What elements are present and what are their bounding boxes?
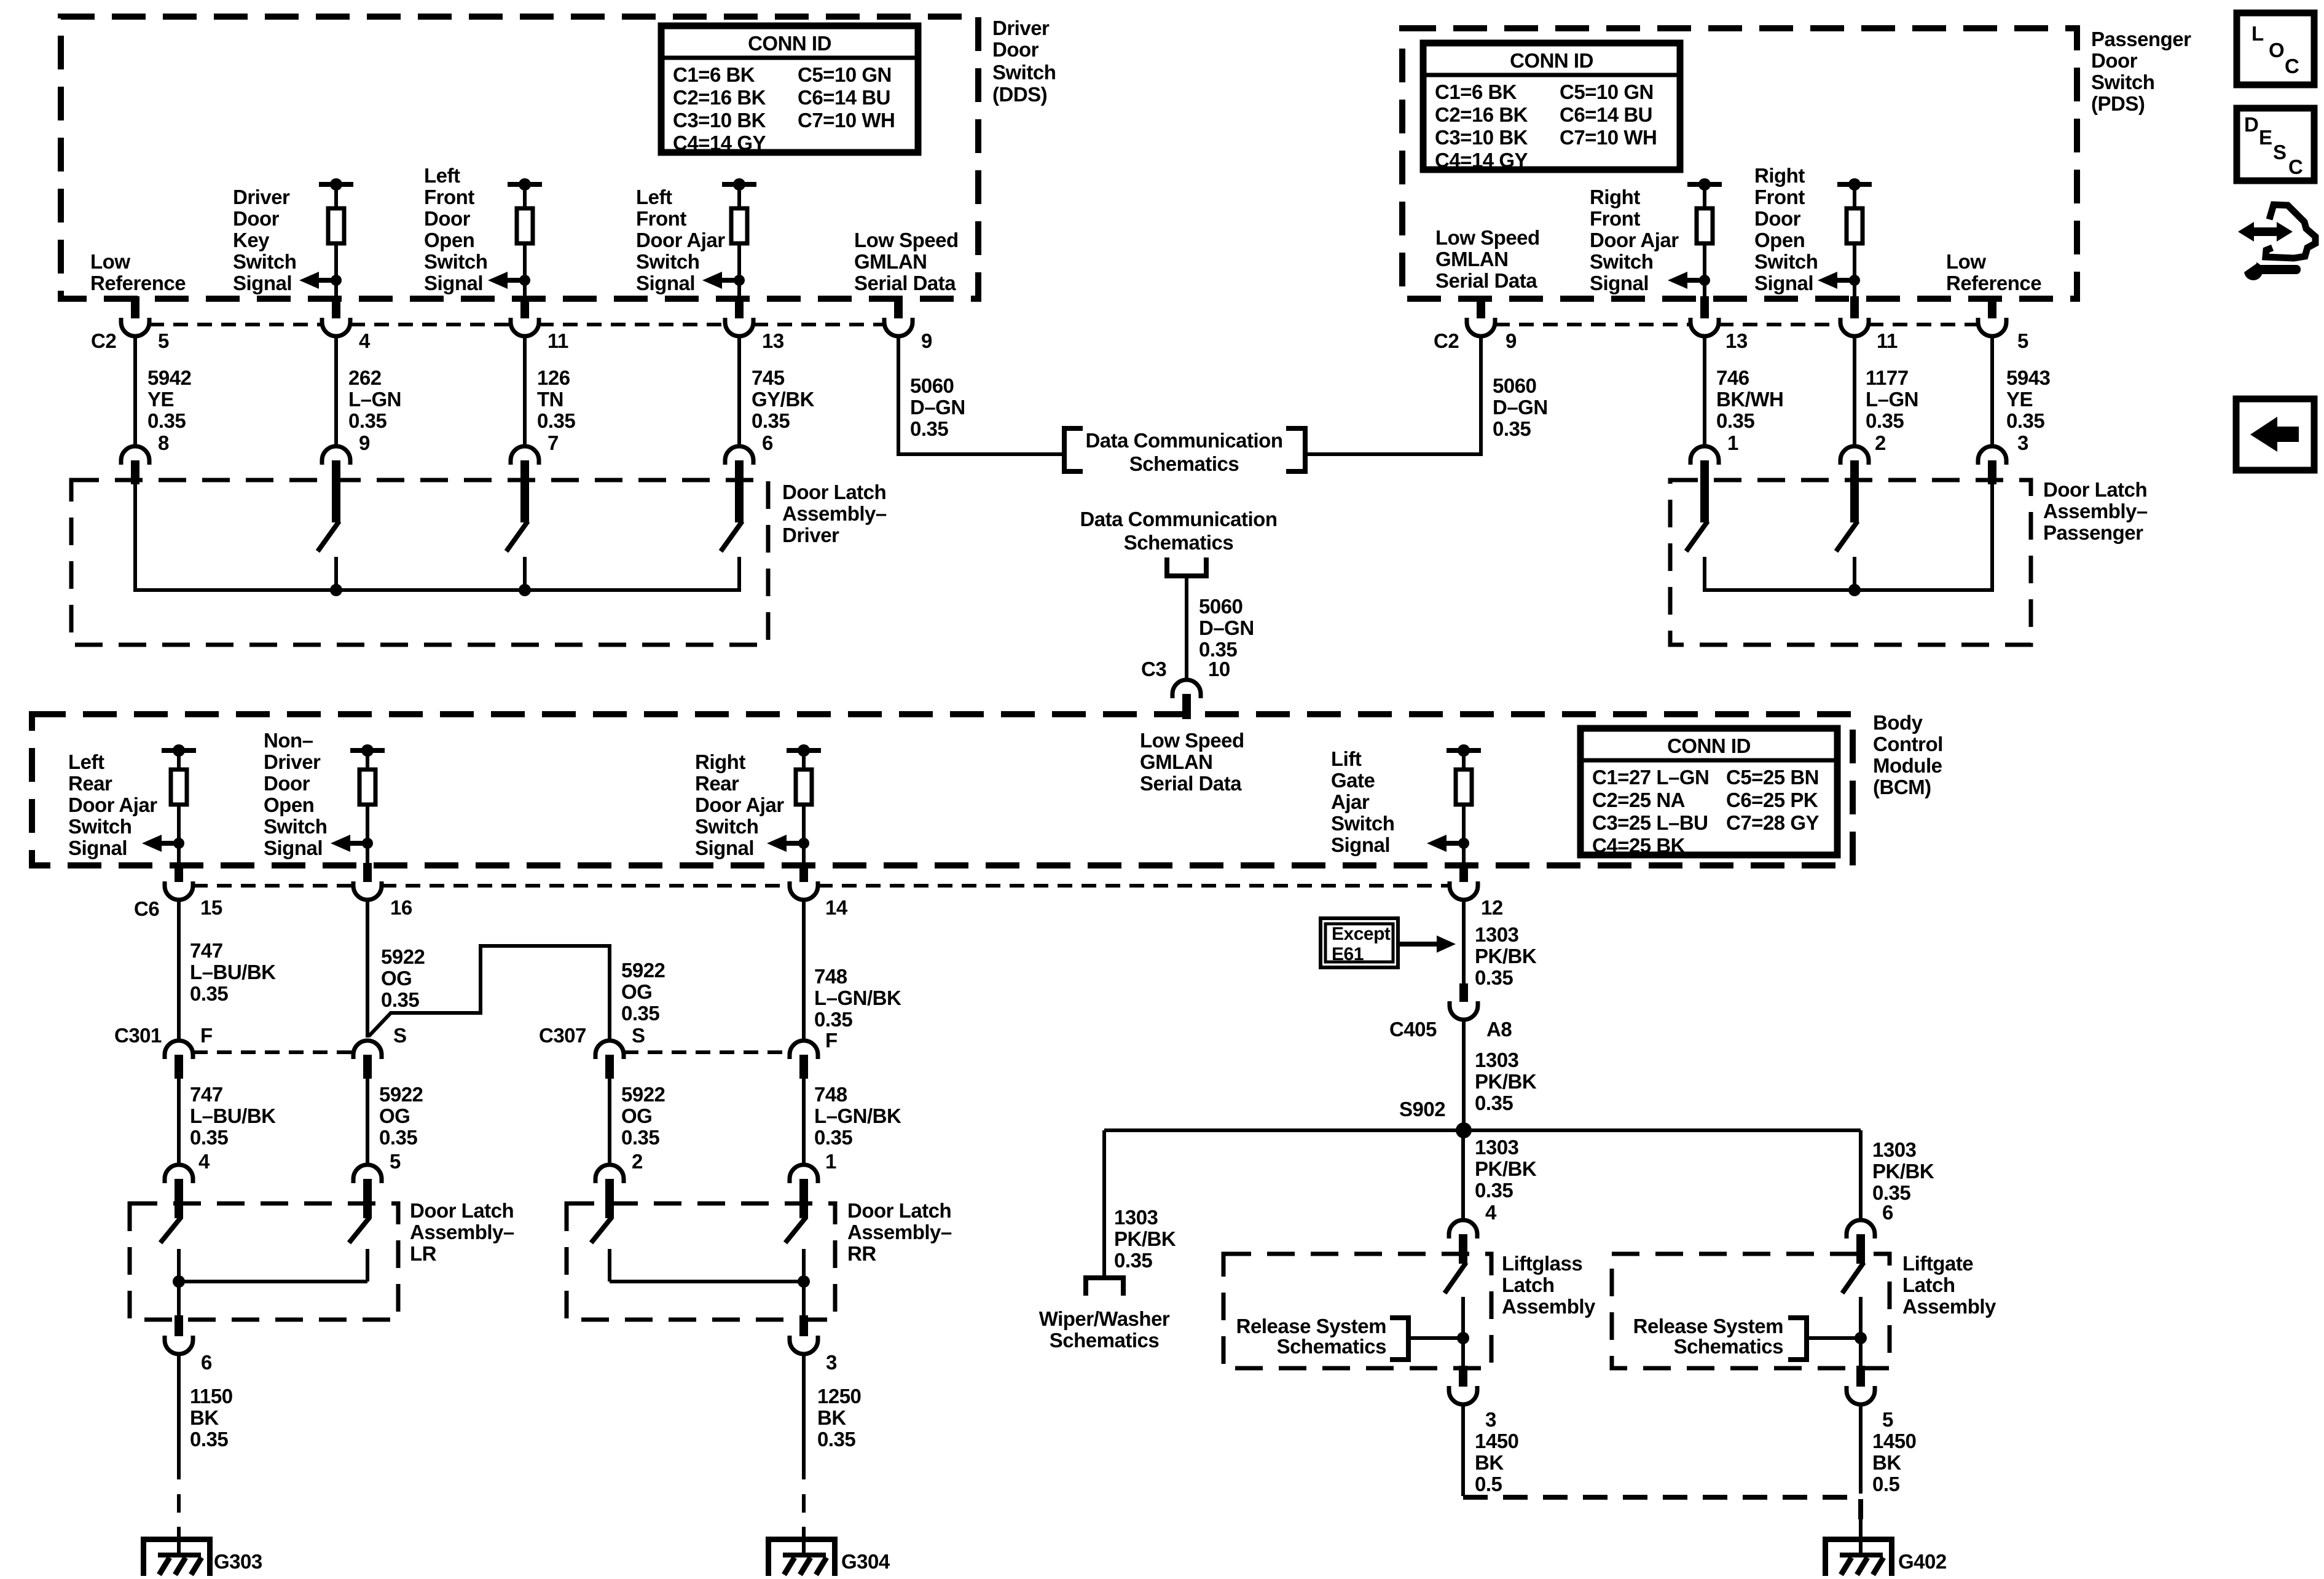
ground wire hidden (x=291) <box>177 1461 181 1527</box>
svg-text:1303: 1303 <box>1475 1136 1519 1159</box>
wire 748 to rear latch (x=1308) <box>802 1079 806 1165</box>
wire 5922 to rear latch (x=598) <box>366 1079 369 1165</box>
svg-text:RR: RR <box>847 1242 876 1265</box>
svg-text:C6=14 BU: C6=14 BU <box>1560 103 1652 126</box>
switch lower contact (x=854) <box>523 557 527 592</box>
svg-text:Signal: Signal <box>233 272 292 294</box>
svg-text:G304: G304 <box>841 1550 890 1573</box>
svg-text:Wiper/Washer: Wiper/Washer <box>1039 1307 1170 1330</box>
svg-text:Signal: Signal <box>264 837 323 859</box>
svg-text:1150: 1150 <box>190 1385 233 1408</box>
svg-text:L–GN: L–GN <box>1866 388 1918 411</box>
svg-text:Door Latch: Door Latch <box>847 1199 951 1222</box>
svg-text:Serial Data: Serial Data <box>1435 269 1537 292</box>
svg-text:C301: C301 <box>114 1024 162 1047</box>
wire 5060 from DDS pin 9 to data-comm bracket <box>898 336 1064 454</box>
svg-text:Low Speed: Low Speed <box>1435 226 1540 249</box>
bus bar and junction for non-driver door open pull-up <box>350 748 385 753</box>
switch lower contact (x=547) <box>334 557 338 592</box>
svg-text:Data Communication: Data Communication <box>1085 429 1282 452</box>
svg-text:Rear: Rear <box>68 772 112 795</box>
connector stub at DDS C2 pin (x=220) <box>131 296 139 318</box>
svg-text:6: 6 <box>762 431 773 454</box>
bus bar and junction for left front door open switch pull-up <box>508 182 542 187</box>
svg-text:Door: Door <box>1754 207 1801 230</box>
svg-text:Front: Front <box>1754 186 1805 208</box>
svg-text:CONN ID: CONN ID <box>1667 734 1751 757</box>
svg-text:12: 12 <box>1481 896 1503 919</box>
svg-text:(PDS): (PDS) <box>2091 92 2145 115</box>
liftgate connector dome <box>1847 1220 1875 1238</box>
svg-text:PK/BK: PK/BK <box>1475 1070 1537 1093</box>
svg-text:Switch: Switch <box>233 250 296 273</box>
latch bottom connector stub (x=1308) <box>799 1315 808 1336</box>
wire 5060 from data-comm to BCM C3 <box>1185 576 1188 680</box>
switch in LR latch (x=598) <box>363 1179 372 1218</box>
svg-text:0.35: 0.35 <box>814 1008 852 1031</box>
svg-text:C2: C2 <box>1434 329 1459 352</box>
svg-text:Low Speed: Low Speed <box>1140 729 1244 752</box>
svg-text:0.35: 0.35 <box>1114 1249 1152 1272</box>
svg-text:C307: C307 <box>539 1024 586 1047</box>
svg-text:Switch: Switch <box>1331 812 1394 835</box>
ground wire solid (x=1308) <box>802 1354 806 1461</box>
ground G303 <box>141 1537 213 1542</box>
svg-text:F: F <box>825 1029 838 1052</box>
svg-text:2: 2 <box>632 1150 643 1173</box>
svg-text:0.5: 0.5 <box>1872 1473 1900 1495</box>
wire 126 from C2 to door latch connector <box>523 336 527 446</box>
svg-text:3: 3 <box>2017 431 2028 454</box>
resistor (right front door ajar switch pull-up) <box>1703 184 1706 208</box>
svg-text:Ajar: Ajar <box>1331 790 1370 813</box>
connector C2 cup (x=854) <box>511 318 539 336</box>
Door Latch Assembly Passenger box <box>1670 480 2031 645</box>
svg-text:C2: C2 <box>91 329 116 352</box>
svg-text:Rear: Rear <box>695 772 739 795</box>
latch bottom connector cup (x=1308) <box>790 1336 818 1354</box>
dotted connector line C2 (PDS) <box>1495 323 1978 326</box>
resistor (non-driver door open pull-up) <box>366 750 369 770</box>
svg-text:Driver: Driver <box>992 17 1050 39</box>
svg-text:TN: TN <box>537 388 563 411</box>
svg-text:Left: Left <box>424 164 460 187</box>
svg-text:7: 7 <box>548 431 559 454</box>
Door Latch Assembly LR box <box>130 1203 398 1320</box>
svg-text:1177: 1177 <box>1866 366 1909 389</box>
bus bar and junction for left front door ajar switch pull-up <box>722 182 756 187</box>
svg-text:Schematics: Schematics <box>1277 1335 1386 1358</box>
wire 746 from PDS C2 to passenger latch <box>1703 336 1706 446</box>
passenger latch connector dome (x=3242) <box>1978 446 2006 465</box>
svg-text:0.35: 0.35 <box>817 1428 855 1451</box>
connector C2 cup PDS (x=2774) <box>1690 318 1719 336</box>
PDS CONN ID table <box>1423 43 1680 170</box>
signal arrow for left rear door ajar <box>142 835 162 852</box>
svg-text:0.35: 0.35 <box>348 409 387 432</box>
Driver Door Switch (DDS) module box <box>61 17 978 299</box>
bus bar and junction for right rear door ajar pull-up <box>787 748 821 753</box>
liftglass bottom connector cup <box>1449 1386 1477 1404</box>
svg-text:Liftgate: Liftgate <box>1902 1252 1973 1275</box>
passenger latch connector dome (x=2774) <box>1690 446 1719 465</box>
svg-text:BK: BK <box>190 1406 219 1429</box>
driver latch common bus <box>135 588 739 590</box>
svg-text:CONN ID: CONN ID <box>748 32 831 55</box>
svg-text:0.35: 0.35 <box>381 988 419 1011</box>
svg-text:C1=27 L–GN: C1=27 L–GN <box>1592 766 1709 789</box>
resistor (right front door open switch pull-up) <box>1853 184 1856 208</box>
svg-text:Signal: Signal <box>1754 272 1813 294</box>
svg-text:0.35: 0.35 <box>1866 409 1904 432</box>
svg-text:L–BU/BK: L–BU/BK <box>190 1105 276 1127</box>
svg-text:0.35: 0.35 <box>814 1126 852 1149</box>
svg-text:Switch: Switch <box>2091 71 2154 93</box>
connector dome C301 F <box>165 1041 193 1059</box>
svg-text:L–BU/BK: L–BU/BK <box>190 961 276 983</box>
door latch connector stub (x=1203) <box>735 460 744 484</box>
connector C2 cup (x=547) <box>322 318 350 336</box>
svg-text:Gate: Gate <box>1331 769 1375 792</box>
dotted connector line C2 (DDS) <box>149 323 884 326</box>
passenger latch common bus <box>1705 588 1992 590</box>
liftgate bottom connector stub <box>1856 1366 1865 1387</box>
svg-text:Switch: Switch <box>68 815 132 838</box>
svg-text:13: 13 <box>762 329 784 352</box>
svg-text:Switch: Switch <box>992 61 1056 84</box>
svg-text:C4=14 GY: C4=14 GY <box>673 132 766 154</box>
rear latch connector dome (x=1308) <box>790 1165 818 1183</box>
signal arrow for right front door open switch <box>1818 272 1837 289</box>
svg-text:0.35: 0.35 <box>621 1126 659 1149</box>
svg-text:Right: Right <box>1590 186 1640 208</box>
svg-text:746: 746 <box>1716 366 1749 389</box>
passenger latch connector stub (x=3242) <box>1988 460 1996 484</box>
svg-text:PK/BK: PK/BK <box>1475 1157 1537 1180</box>
svg-text:3: 3 <box>826 1351 837 1374</box>
svg-text:Module: Module <box>1873 754 1942 777</box>
svg-text:GY/BK: GY/BK <box>752 388 815 411</box>
svg-text:15: 15 <box>200 896 222 919</box>
svg-text:748: 748 <box>814 965 847 988</box>
RR latch bus <box>610 1280 804 1283</box>
connector C405 cup <box>1450 1001 1478 1020</box>
svg-text:4: 4 <box>1485 1201 1497 1224</box>
svg-text:Left: Left <box>636 186 672 208</box>
svg-text:S902: S902 <box>1399 1098 1445 1120</box>
latch bottom connector stub (x=291) <box>175 1315 183 1336</box>
svg-text:Signal: Signal <box>68 837 127 859</box>
switch in RR latch (x=992) <box>605 1179 614 1218</box>
svg-text:Right: Right <box>1754 164 1805 187</box>
signal arrow for left front door open switch <box>488 272 508 289</box>
bracket Release System Schematics (liftgate) <box>1788 1318 1807 1360</box>
svg-text:Except: Except <box>1332 924 1391 944</box>
svg-text:Door Ajar: Door Ajar <box>68 793 157 816</box>
bus bar and junction for right front door ajar switch pull-up <box>1687 182 1722 187</box>
connector stub at DDS C2 pin (x=854) <box>520 296 529 318</box>
svg-text:C405: C405 <box>1389 1018 1437 1041</box>
svg-text:4: 4 <box>359 329 371 352</box>
svg-text:F: F <box>200 1024 213 1047</box>
svg-text:0.35: 0.35 <box>379 1126 417 1149</box>
svg-text:1303: 1303 <box>1475 1049 1519 1071</box>
svg-text:5942: 5942 <box>147 366 192 389</box>
svg-text:Door Latch: Door Latch <box>410 1199 514 1222</box>
svg-text:5922: 5922 <box>379 1083 423 1106</box>
svg-text:Signal: Signal <box>424 272 483 294</box>
svg-text:C: C <box>2285 55 2299 77</box>
connector C2 cup PDS (x=3242) <box>1978 318 2006 336</box>
svg-text:0.5: 0.5 <box>1475 1473 1502 1495</box>
wire: wiper/washer branch <box>1102 1130 1106 1278</box>
wire RR latch to pin 3 <box>802 1249 806 1320</box>
wire 748 from BCM pin 14 to C307 <box>802 900 806 1041</box>
wire through liftglass latch <box>1461 1297 1465 1368</box>
wire: low reference into passenger latch <box>1990 484 1994 590</box>
svg-text:Schematics: Schematics <box>1050 1329 1159 1352</box>
left bracket (Data Communication Schematics) <box>1064 428 1083 471</box>
svg-text:5: 5 <box>1882 1408 1893 1431</box>
connector C405 stub <box>1459 983 1468 1002</box>
svg-text:16: 16 <box>390 896 412 919</box>
connector dome C307 F <box>790 1041 818 1059</box>
svg-text:0.35: 0.35 <box>2006 409 2044 432</box>
wire 745 from C2 to door latch connector <box>737 336 741 446</box>
svg-text:D–GN: D–GN <box>1199 616 1254 639</box>
svg-text:OG: OG <box>621 1105 652 1127</box>
liftgate connector stub <box>1856 1234 1865 1264</box>
wire through liftgate latch <box>1859 1297 1863 1368</box>
svg-text:Signal: Signal <box>695 837 754 859</box>
svg-text:GMLAN: GMLAN <box>1435 248 1508 270</box>
svg-text:747: 747 <box>190 1083 223 1106</box>
bracket to Wiper/Washer Schematics <box>1086 1278 1123 1296</box>
svg-text:Assembly: Assembly <box>1502 1295 1596 1318</box>
svg-text:9: 9 <box>359 431 370 454</box>
svg-text:Assembly–: Assembly– <box>782 502 887 525</box>
wire: low reference into driver latch <box>133 484 137 590</box>
svg-text:1450: 1450 <box>1872 1430 1916 1452</box>
signal arrow for lift gate ajar <box>1427 835 1447 852</box>
rear latch connector dome (x=992) <box>595 1165 624 1183</box>
svg-text:1: 1 <box>825 1150 836 1173</box>
connector stub at BCM C6 pin (x=291) <box>175 863 183 882</box>
bus bar and junction for lift gate ajar pull-up <box>1447 748 1481 753</box>
icon: LOC box <box>2237 13 2314 85</box>
switch in LR latch (x=291) <box>175 1179 183 1218</box>
svg-text:1303: 1303 <box>1475 923 1519 946</box>
svg-text:Door Ajar: Door Ajar <box>636 229 725 251</box>
svg-text:Reference: Reference <box>90 272 186 294</box>
bracket Release System Schematics (liftglass) <box>1390 1318 1408 1360</box>
resistor (left rear door ajar pull-up) <box>177 750 181 770</box>
connector C6 cup (x=2382) <box>1450 881 1478 900</box>
svg-text:Lift: Lift <box>1331 747 1362 770</box>
svg-text:0.35: 0.35 <box>147 409 186 432</box>
connector stub at PDS C2 pin (x=3242) <box>1988 296 1996 318</box>
bus bar and junction for left rear door ajar pull-up <box>162 748 196 753</box>
Except E61 callout box <box>1321 918 1398 967</box>
svg-text:(BCM): (BCM) <box>1873 776 1931 798</box>
svg-text:1303: 1303 <box>1872 1138 1917 1161</box>
passenger latch connector stub (x=2774) <box>1700 460 1709 484</box>
connector dome C307 S <box>595 1041 624 1059</box>
resistor (left front door ajar switch pull-up) <box>737 184 741 208</box>
wire 5943 from PDS C2 to passenger latch <box>1990 336 1994 446</box>
door latch connector dome (x=220) <box>121 446 149 465</box>
connector stub C301 S <box>363 1055 372 1079</box>
svg-text:C5=25 BN: C5=25 BN <box>1726 766 1819 789</box>
svg-text:5922: 5922 <box>381 945 425 968</box>
svg-text:C2=16 BK: C2=16 BK <box>673 86 766 109</box>
connector stub at PDS C2 pin (x=2774) <box>1700 296 1709 318</box>
svg-text:8: 8 <box>158 431 169 454</box>
resistor (driver door key switch pull-up) <box>334 184 338 208</box>
svg-text:YE: YE <box>2006 388 2033 411</box>
connector stub C301 F <box>175 1055 183 1079</box>
svg-text:0.35: 0.35 <box>1475 966 1513 989</box>
bus bar and junction for right front door open switch pull-up <box>1837 182 1872 187</box>
svg-text:Front: Front <box>424 186 474 208</box>
svg-text:6: 6 <box>201 1351 212 1374</box>
svg-text:Switch: Switch <box>636 250 699 273</box>
svg-text:C7=10 WH: C7=10 WH <box>798 109 895 132</box>
svg-text:C6=25 PK: C6=25 PK <box>1726 789 1818 811</box>
svg-text:Schematics: Schematics <box>1129 452 1239 475</box>
svg-text:Switch: Switch <box>1590 250 1653 273</box>
wire 5942 from C2 to door latch connector <box>133 336 137 446</box>
bracket below Data Communication Schematics <box>1167 557 1206 576</box>
svg-text:Low: Low <box>1946 250 1986 273</box>
switch in passenger latch (x=3018) <box>1850 460 1859 522</box>
wire to liftgate latch <box>1859 1130 1863 1221</box>
svg-text:Door: Door <box>2091 49 2138 72</box>
svg-text:0.35: 0.35 <box>910 417 948 440</box>
rear latch connector dome (x=598) <box>353 1165 382 1183</box>
signal arrow for left front door ajar switch <box>702 272 722 289</box>
svg-text:Liftglass: Liftglass <box>1502 1252 1582 1275</box>
svg-text:C7=10 WH: C7=10 WH <box>1560 126 1657 149</box>
svg-text:Schematics: Schematics <box>1124 531 1233 554</box>
svg-text:747: 747 <box>190 939 223 962</box>
resistor (right rear door ajar pull-up) <box>802 750 806 770</box>
svg-text:GMLAN: GMLAN <box>854 250 927 273</box>
wire 1177 from PDS C2 to passenger latch <box>1853 336 1856 446</box>
svg-text:C2=25 NA: C2=25 NA <box>1592 789 1685 811</box>
svg-text:Front: Front <box>1590 207 1640 230</box>
connector stub at PDS C2 pin (x=2410) <box>1477 296 1485 318</box>
svg-text:C6=14 BU: C6=14 BU <box>798 86 890 109</box>
svg-text:C1=6 BK: C1=6 BK <box>673 63 755 86</box>
connector stub C307 F <box>799 1055 808 1079</box>
svg-text:OG: OG <box>379 1105 410 1127</box>
svg-text:Non–: Non– <box>264 729 313 752</box>
svg-text:5922: 5922 <box>621 1083 665 1106</box>
svg-text:Key: Key <box>233 229 270 251</box>
wire 1450 below liftgate <box>1859 1404 1863 1494</box>
svg-text:S: S <box>393 1024 407 1047</box>
liftglass bottom connector stub <box>1459 1366 1467 1387</box>
svg-text:L–GN/BK: L–GN/BK <box>814 986 901 1009</box>
svg-text:0.35: 0.35 <box>537 409 575 432</box>
svg-text:Right: Right <box>695 750 745 773</box>
wire to liftglass latch <box>1461 1130 1465 1221</box>
svg-text:Low: Low <box>90 250 130 273</box>
wire 5922 from BCM pin 16 to C301 splice <box>366 900 369 1038</box>
svg-text:G303: G303 <box>214 1550 262 1573</box>
svg-text:0.35: 0.35 <box>190 1126 228 1149</box>
connector stub at DDS C2 pin (x=547) <box>332 296 340 318</box>
svg-text:Latch: Latch <box>1902 1274 1955 1296</box>
svg-text:Switch: Switch <box>695 815 758 838</box>
svg-text:6: 6 <box>1882 1201 1893 1224</box>
connector C2 cup (x=1203) <box>725 318 753 336</box>
svg-text:Low Speed: Low Speed <box>854 229 959 251</box>
connector stub at BCM C6 pin (x=598) <box>363 863 372 882</box>
connector stub at BCM C6 pin (x=1308) <box>799 863 808 882</box>
svg-text:Switch: Switch <box>264 815 327 838</box>
wire 1303 from C405 to S902 <box>1462 1020 1466 1130</box>
svg-text:Reference: Reference <box>1946 272 2041 294</box>
svg-text:Door: Door <box>233 207 280 230</box>
svg-text:Front: Front <box>636 207 686 230</box>
ground wire hidden (x=1308) <box>802 1461 806 1527</box>
Door Latch Assembly RR box <box>567 1203 835 1320</box>
ground G402 <box>1823 1537 1894 1542</box>
switch in RR latch (x=1308) <box>799 1179 808 1218</box>
signal arrow for right rear door ajar <box>767 835 787 852</box>
wire 262 from C2 to door latch connector <box>334 336 338 446</box>
svg-text:C7=28 GY: C7=28 GY <box>1726 811 1819 834</box>
svg-text:1: 1 <box>1727 431 1738 454</box>
svg-text:C6: C6 <box>134 897 159 920</box>
svg-text:C3=10 BK: C3=10 BK <box>1435 126 1528 149</box>
svg-text:0.35: 0.35 <box>1475 1179 1513 1202</box>
svg-text:Door: Door <box>424 207 471 230</box>
svg-text:Control: Control <box>1873 733 1943 755</box>
ground wire solid (x=291) <box>177 1354 181 1461</box>
door latch connector dome (x=547) <box>322 446 350 465</box>
switch in driver latch (x=1203) <box>735 460 744 522</box>
svg-text:C4=25 BK: C4=25 BK <box>1592 834 1686 857</box>
svg-text:5943: 5943 <box>2006 366 2051 389</box>
connector stub at BCM C6 pin (x=2382) <box>1459 863 1468 882</box>
svg-text:L: L <box>2251 22 2264 45</box>
svg-text:5060: 5060 <box>1493 374 1536 397</box>
svg-text:11: 11 <box>548 329 568 352</box>
connector dome C301 S <box>353 1041 382 1059</box>
dotted connector line C301/C307 <box>193 1050 790 1054</box>
svg-text:Assembly–: Assembly– <box>847 1221 952 1243</box>
Liftgate Latch Assembly box <box>1612 1254 1890 1368</box>
svg-text:Schematics: Schematics <box>1674 1335 1783 1358</box>
svg-text:Left: Left <box>68 750 104 773</box>
svg-text:PK/BK: PK/BK <box>1114 1227 1176 1250</box>
svg-text:0.35: 0.35 <box>190 1428 228 1451</box>
connector C2 cup (x=1462) <box>884 318 913 336</box>
connector C3 stub <box>1182 694 1191 719</box>
svg-text:5: 5 <box>2017 329 2028 352</box>
svg-text:Body: Body <box>1873 711 1923 734</box>
wire 747 from BCM pin 15 to C301 <box>177 900 181 1041</box>
svg-text:0.35: 0.35 <box>1716 409 1754 432</box>
svg-text:L–GN/BK: L–GN/BK <box>814 1105 901 1127</box>
svg-text:Signal: Signal <box>1590 272 1649 294</box>
connector C2 cup PDS (x=2410) <box>1467 318 1495 336</box>
Body Control Module (BCM) box <box>32 714 1853 865</box>
resistor (lift gate ajar pull-up) <box>1462 750 1466 770</box>
